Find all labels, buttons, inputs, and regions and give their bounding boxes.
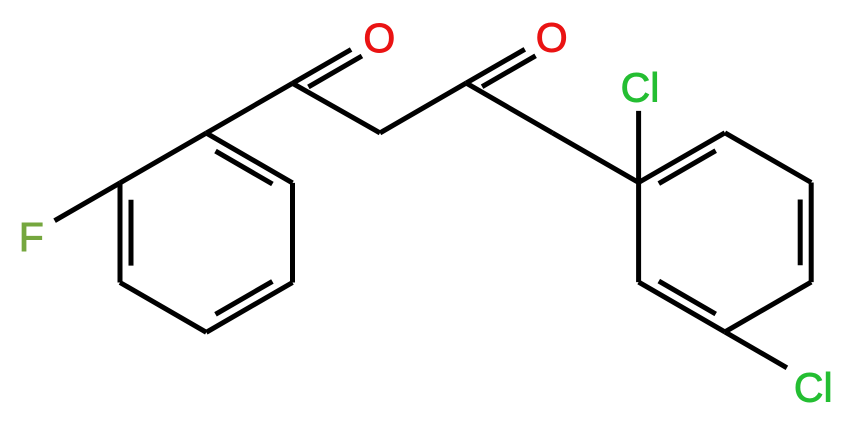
svg-text:F: F <box>19 214 44 260</box>
svg-text:O: O <box>363 15 395 61</box>
svg-text:Cl: Cl <box>794 364 833 410</box>
svg-text:O: O <box>536 15 568 61</box>
svg-text:Cl: Cl <box>621 65 660 111</box>
